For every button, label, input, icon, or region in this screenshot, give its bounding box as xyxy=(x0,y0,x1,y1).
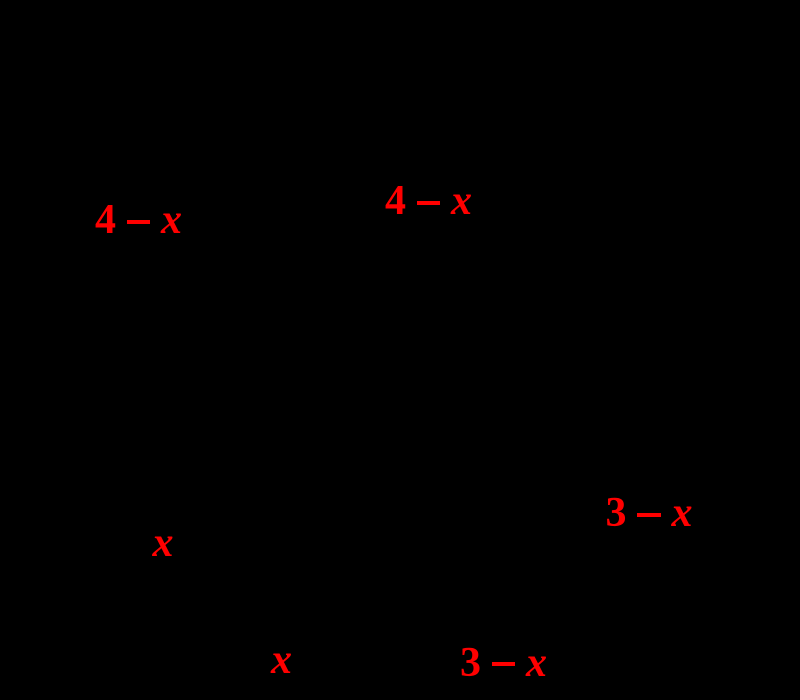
label 3 - x (bottom side, right segment) xyxy=(460,642,547,684)
triangle ABC xyxy=(205,80,720,625)
label x (bottom side, left segment) xyxy=(271,639,292,681)
label 4 - x (left side, upper segment) xyxy=(95,199,182,241)
incircle xyxy=(223,335,513,625)
label x (left side, lower segment) xyxy=(153,522,174,564)
label 3 - x (hypotenuse, lower segment) xyxy=(606,492,693,534)
tangent point on AB xyxy=(243,439,251,447)
label 4 - x (hypotenuse, upper segment) xyxy=(385,180,472,222)
tangent point on AC xyxy=(474,283,482,291)
tangent point on BC xyxy=(364,621,372,629)
